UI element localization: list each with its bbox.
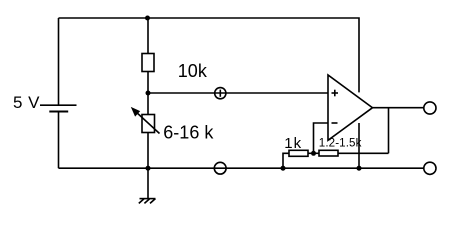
potentiometer R2 6-16k body (142, 115, 155, 133)
wire: feedback from output (388, 108, 390, 154)
output terminal bottom (424, 162, 436, 174)
wire: bottom rail (59, 167, 424, 169)
resistor R1 10k (142, 54, 154, 72)
wire: middle branch bottom (147, 133, 149, 199)
wire: op-amp V- supply to bottom rail (358, 123, 360, 168)
junction node: 1k / 1.2-1.5k / inverting input (311, 151, 316, 156)
junction node: middle branch / signal wire (146, 91, 151, 96)
wire: left branch bottom (battery -) (58, 111, 60, 168)
potentiometer arrow (131, 107, 160, 134)
svg-text:10k: 10k (178, 61, 208, 81)
svg-text:6-16 k: 6-16 k (163, 122, 214, 142)
wire: middle branch top (147, 18, 149, 54)
svg-text:1k: 1k (284, 135, 302, 152)
svg-text:1.2-1.5k: 1.2-1.5k (319, 136, 362, 149)
wire: inverting input (314, 123, 329, 153)
junction node: top rail / middle branch (145, 16, 150, 21)
wire: top rail from battery + to op-amp V+ (59, 18, 360, 92)
terminal TP- (circle, wire through reads as minus) (214, 162, 226, 174)
wire: middle branch between 10k and pot (147, 72, 149, 115)
resistor R4 1.2-1.5k (314, 150, 389, 156)
wire: mid signal wire to op-amp + input (148, 92, 328, 94)
resistor R3 1k (283, 150, 314, 168)
junction node: V- / bottom rail (357, 166, 362, 171)
wire: op-amp output (373, 107, 424, 109)
output terminal top (424, 102, 436, 114)
svg-text:5 V: 5 V (13, 93, 40, 112)
junction node: middle branch / bottom rail (146, 166, 151, 171)
wire: left branch top (battery +) (58, 18, 60, 105)
ground (139, 199, 156, 204)
junction node: 1k / bottom rail (281, 166, 286, 171)
op-amp U1 (328, 75, 373, 140)
battery B1 5V plates (40, 105, 77, 111)
terminal TP+ (circle with plus) (215, 88, 226, 99)
